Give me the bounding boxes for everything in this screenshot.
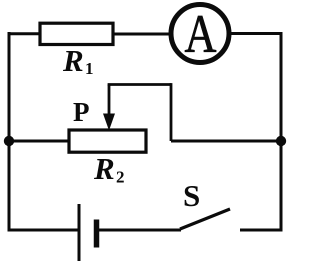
node right junction: [276, 136, 286, 146]
svg-text:R: R: [62, 43, 84, 78]
svg-text:S: S: [183, 178, 200, 213]
svg-text:2: 2: [116, 168, 125, 187]
switch S lever: [180, 209, 230, 229]
battery short thick plate: [94, 220, 100, 248]
wire wiper to right junction: [171, 140, 281, 143]
svg-text:R: R: [93, 151, 115, 186]
potentiometer R2: [69, 130, 146, 152]
wire wiper horizontal: [108, 83, 171, 86]
svg-text:P: P: [73, 97, 90, 127]
wire left vertical: [8, 32, 11, 232]
resistor R1: [40, 23, 113, 44]
wire right vertical: [280, 32, 283, 232]
node left junction: [4, 136, 14, 146]
battery long plate: [78, 204, 81, 261]
wire ammeter to top right corner: [229, 32, 283, 35]
ammeter A: [171, 5, 229, 63]
wiper arrow of R2: [108, 85, 111, 120]
svg-text:A: A: [185, 4, 217, 64]
wire between R1 and ammeter: [112, 33, 171, 36]
wire bottom left segment: [8, 229, 80, 232]
svg-text:1: 1: [85, 59, 94, 78]
wire top left segment: [8, 32, 42, 35]
wire switch right stub: [240, 229, 283, 232]
wire left junction to R2: [9, 140, 68, 143]
wire wiper right vertical: [170, 83, 173, 141]
wire battery to switch: [97, 229, 182, 232]
